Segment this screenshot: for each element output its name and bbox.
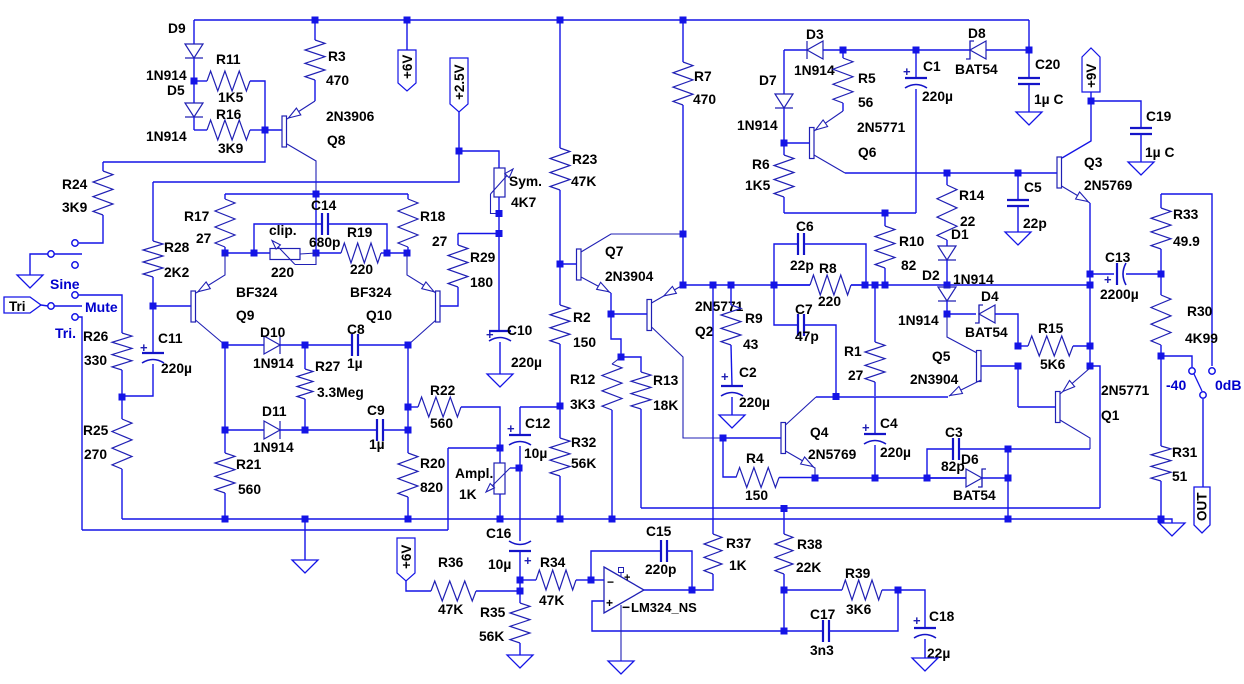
- svg-text:R5: R5: [858, 71, 876, 86]
- svg-text:10µ: 10µ: [524, 446, 547, 461]
- node D3/R5: [840, 47, 847, 54]
- svg-text:C14: C14: [311, 198, 337, 213]
- label R6 value 1K5: [745, 178, 771, 193]
- label R16: [216, 107, 242, 122]
- svg-text:R20: R20: [420, 456, 446, 471]
- label R13 value 18K: [653, 398, 678, 413]
- svg-text:C9: C9: [367, 403, 385, 418]
- node top bus / R7: [680, 17, 687, 24]
- label R38: [797, 537, 823, 552]
- capacitor C2: [721, 369, 743, 415]
- diode D6 BAT54: [927, 469, 1008, 487]
- svg-text:BF324: BF324: [350, 285, 392, 300]
- svg-text:3K9: 3K9: [62, 200, 88, 215]
- label R7: [694, 69, 712, 84]
- svg-text:22p: 22p: [1023, 216, 1047, 231]
- svg-text:2N5769: 2N5769: [1084, 178, 1133, 193]
- transistor Q2: [611, 285, 723, 438]
- diode D3: [807, 41, 843, 59]
- label C1 value 220µ: [922, 89, 953, 104]
- wire Q9 column: [224, 345, 226, 453]
- svg-text:C6: C6: [796, 219, 814, 234]
- label R8 value 220: [818, 294, 841, 309]
- label Q7: [605, 244, 624, 259]
- diode D5: [185, 81, 203, 130]
- svg-text:1K: 1K: [729, 558, 747, 573]
- label R17 value 27: [196, 231, 212, 246]
- node R6 row / R10: [882, 210, 889, 217]
- switch contact 0dB: [1209, 368, 1215, 374]
- svg-text:1N914: 1N914: [253, 440, 294, 455]
- capacitor C5: [1007, 173, 1029, 232]
- capacitor C6: [774, 233, 866, 285]
- svg-text:Q6: Q6: [858, 145, 877, 160]
- node C16/R34: [517, 577, 524, 584]
- wire R6 bottom row: [784, 212, 916, 214]
- svg-text:C18: C18: [929, 609, 955, 624]
- svg-text:D8: D8: [968, 26, 986, 41]
- label R9: [745, 311, 763, 326]
- transistor Q7: [560, 234, 683, 314]
- node rail R21: [222, 516, 229, 523]
- capacitor C17: [784, 590, 898, 642]
- svg-text:3n3: 3n3: [810, 643, 834, 658]
- resistor R39: [784, 580, 898, 600]
- label R4: [746, 451, 764, 466]
- wire R33 top to 0dB: [1161, 194, 1212, 366]
- label R6: [752, 157, 770, 172]
- resistor R34: [520, 570, 591, 590]
- svg-text:1µ C: 1µ C: [1145, 145, 1174, 160]
- label R32 value 56K: [571, 456, 596, 471]
- label D7 value 1N914: [737, 118, 778, 133]
- wire C12 top to R2 node: [520, 406, 560, 408]
- label C6 value 22p: [790, 258, 814, 273]
- svg-text:1N914: 1N914: [794, 63, 835, 78]
- svg-text:47K: 47K: [571, 174, 596, 189]
- label R20 value 820: [420, 480, 443, 495]
- label R39 value 3K6: [846, 602, 872, 617]
- wiper Ampl to C12: [510, 467, 520, 469]
- svg-text:C12: C12: [525, 416, 551, 431]
- svg-text:10µ: 10µ: [488, 557, 511, 572]
- node C1 top: [913, 47, 920, 54]
- wire Q4 collector row: [816, 396, 948, 398]
- node Q5 base: [1015, 363, 1022, 370]
- label C10: [507, 323, 533, 338]
- switch pole ground: [30, 251, 82, 275]
- svg-text:R17: R17: [184, 209, 210, 224]
- label R16 value 3K9: [218, 141, 244, 156]
- resistor R26: [112, 333, 132, 397]
- node R34/C15/opamp: [588, 577, 595, 584]
- resistor R15: [1018, 336, 1090, 356]
- node R10 bottom: [882, 282, 889, 289]
- svg-text:Sine: Sine: [50, 276, 80, 292]
- svg-text:3.3Meg: 3.3Meg: [317, 385, 364, 400]
- node Q2 emitter: [680, 282, 687, 289]
- node emitter row mid: [313, 250, 320, 257]
- label R23: [572, 152, 598, 167]
- resistor R4: [723, 438, 815, 488]
- label Q4: [810, 425, 829, 440]
- svg-text:R30: R30: [1187, 304, 1213, 319]
- power flag +6V top: [398, 20, 416, 91]
- label D4 value BAT54: [965, 325, 1008, 340]
- node R22 tap: [405, 404, 412, 411]
- label R34: [540, 555, 566, 570]
- label R19: [347, 225, 373, 240]
- capacitor C19: [1091, 101, 1152, 162]
- wire emitter row right: [815, 477, 966, 479]
- label R28: [164, 240, 190, 255]
- svg-text:R6: R6: [752, 157, 770, 172]
- label Sym.: [509, 174, 542, 189]
- node C4 bottom: [872, 475, 879, 482]
- svg-text:680p: 680p: [309, 235, 340, 250]
- label R26 value 330: [84, 353, 107, 368]
- svg-text:R11: R11: [216, 52, 241, 67]
- wire gnd mid drop: [304, 519, 306, 560]
- svg-text:R23: R23: [572, 152, 598, 167]
- node R18 bottom / Q10 emitter: [404, 250, 411, 257]
- label R20: [420, 456, 446, 471]
- svg-text:R24: R24: [62, 177, 88, 192]
- svg-text:D11: D11: [262, 404, 287, 419]
- svg-text:R12: R12: [570, 372, 596, 387]
- svg-text:+: +: [862, 420, 870, 435]
- resistor R37: [692, 534, 722, 590]
- svg-text:C7: C7: [795, 302, 813, 317]
- svg-text:56K: 56K: [479, 629, 504, 644]
- label R36: [438, 555, 464, 570]
- resistor R14: [937, 173, 957, 246]
- svg-text:2N3904: 2N3904: [605, 269, 654, 284]
- svg-text:BAT54: BAT54: [955, 62, 998, 77]
- switch arm out: [1194, 374, 1206, 398]
- node Q10 collector row: [405, 342, 412, 349]
- node Sym/R29 row: [496, 230, 503, 237]
- svg-text:+: +: [721, 369, 729, 384]
- svg-text:R38: R38: [797, 537, 823, 552]
- node rail Ampl: [497, 516, 504, 523]
- svg-text:LM324_NS: LM324_NS: [631, 600, 697, 615]
- node D1/D2 on feedback line: [944, 282, 951, 289]
- svg-text:C8: C8: [347, 322, 365, 337]
- node Q9 base: [150, 303, 157, 310]
- svg-text:270: 270: [84, 447, 107, 462]
- node R1 top: [872, 282, 879, 289]
- wire R13 bottom row: [641, 507, 1100, 509]
- node R38 top: [781, 505, 788, 512]
- trimmer Ampl. 1K: [486, 448, 510, 519]
- svg-text:-40: -40: [1166, 377, 1186, 393]
- label Ampl.: [455, 466, 493, 481]
- svg-text:2N5769: 2N5769: [808, 447, 857, 462]
- ground C18: [912, 658, 938, 671]
- label D1: [951, 227, 969, 242]
- wire to OUT port: [1202, 399, 1204, 487]
- resistor R13: [621, 357, 651, 508]
- node R15 left: [1015, 343, 1022, 350]
- svg-text:R16: R16: [216, 107, 242, 122]
- label R2 value 150: [573, 335, 596, 350]
- svg-text:R15: R15: [1038, 321, 1064, 336]
- svg-text:43: 43: [743, 337, 759, 352]
- label D7: [759, 73, 777, 88]
- label C9: [367, 403, 385, 418]
- wire to -40 contact: [1161, 356, 1192, 367]
- svg-text:−: −: [622, 600, 630, 615]
- svg-text:1N914: 1N914: [146, 68, 187, 83]
- label R29: [470, 250, 496, 265]
- svg-text:BAT54: BAT54: [965, 325, 1008, 340]
- label C3 value 82p: [941, 459, 965, 474]
- svg-text:+: +: [913, 613, 921, 628]
- svg-text:2N3906: 2N3906: [326, 109, 375, 124]
- node C3/Q1 collector: [1005, 446, 1012, 453]
- node R17 bottom / Q9 emitter: [222, 250, 229, 257]
- transistor Q6: [784, 111, 845, 173]
- label C4 value 220µ: [880, 445, 911, 460]
- node D9/D5/R11: [191, 78, 198, 85]
- svg-text:2N5771: 2N5771: [1101, 383, 1150, 398]
- label R29 value 180: [470, 275, 493, 290]
- label R13: [653, 373, 679, 388]
- svg-text:+: +: [624, 572, 630, 584]
- svg-text:+6V: +6V: [400, 55, 415, 79]
- label R10: [899, 234, 925, 249]
- ground R35: [507, 655, 533, 668]
- label D11: [262, 404, 287, 419]
- switch throw Sine: [72, 292, 122, 333]
- label Q6: [858, 145, 877, 160]
- ground op-amp: [608, 661, 634, 674]
- node R12/R13 top: [618, 354, 625, 361]
- power flag +2.5V: [450, 58, 468, 151]
- label D3 value 1N914: [794, 63, 835, 78]
- label Q3: [1084, 155, 1103, 170]
- svg-text:C15: C15: [646, 524, 672, 539]
- svg-text:1N914: 1N914: [253, 356, 294, 371]
- svg-text:R32: R32: [571, 435, 597, 450]
- svg-text:56: 56: [858, 95, 874, 110]
- label C5: [1024, 180, 1042, 195]
- svg-text:R29: R29: [470, 250, 496, 265]
- label C9 value 1µ: [369, 437, 385, 452]
- node C6/C7 left: [771, 282, 778, 289]
- svg-text:47p: 47p: [795, 329, 819, 344]
- label 0dB: [1215, 377, 1241, 393]
- wire rail y530: [82, 529, 448, 531]
- label Q3 type 2N5769: [1084, 178, 1133, 193]
- label C16 value 10µ: [488, 557, 511, 572]
- svg-text:180: 180: [470, 275, 493, 290]
- label R24 value 3K9: [62, 200, 88, 215]
- svg-text:R8: R8: [819, 261, 837, 276]
- svg-text:82: 82: [901, 258, 917, 273]
- svg-text:Sym.: Sym.: [509, 174, 542, 189]
- svg-text:OUT: OUT: [1195, 492, 1210, 521]
- diode D8 BAT54: [916, 41, 1029, 59]
- ground C10: [487, 374, 513, 387]
- node +2.5V: [456, 148, 463, 155]
- node Q7 base: [557, 261, 564, 268]
- svg-text:220µ: 220µ: [511, 355, 542, 370]
- node R39/C17 right: [895, 587, 902, 594]
- svg-text:1N914: 1N914: [898, 313, 939, 328]
- resistor R6: [774, 143, 794, 213]
- wire Q8 base to R24: [103, 130, 265, 162]
- label R18 value 27: [432, 234, 448, 249]
- trimmer clip. 220: [270, 241, 316, 265]
- svg-text:D7: D7: [759, 73, 777, 88]
- wire R17/R18 top row: [225, 193, 408, 195]
- transistor Q8: [265, 101, 316, 194]
- label D10: [260, 325, 286, 340]
- node Q2 base tap: [608, 311, 615, 318]
- resistor R2: [550, 264, 570, 406]
- wire emitter row a: [225, 252, 270, 254]
- svg-text:D5: D5: [167, 83, 185, 98]
- label C14: [311, 198, 337, 213]
- svg-text:D6: D6: [961, 452, 979, 467]
- node Q7 collector row: [680, 231, 687, 238]
- capacitor C7: [774, 285, 836, 396]
- node C9/R20: [405, 427, 412, 434]
- svg-text:220µ: 220µ: [880, 445, 911, 460]
- port OUT: [1194, 487, 1210, 533]
- wire rail to ground right: [1161, 519, 1172, 523]
- label Sine: [50, 276, 80, 292]
- svg-text:5K6: 5K6: [1040, 357, 1066, 372]
- wire Q10 column: [407, 345, 409, 453]
- svg-text:Ampl.: Ampl.: [455, 466, 493, 481]
- label R3: [328, 49, 346, 64]
- resistor R8: [774, 275, 865, 295]
- capacitor C16: [509, 541, 532, 591]
- svg-text:51: 51: [1172, 469, 1188, 484]
- label R25: [83, 423, 109, 438]
- transistor Q5: [947, 314, 1018, 396]
- resistor R36: [431, 581, 520, 601]
- wire R29 top row: [458, 233, 499, 235]
- svg-text:0dB: 0dB: [1215, 377, 1241, 393]
- label D8 value BAT54: [955, 62, 998, 77]
- resistor R1: [865, 285, 885, 396]
- label R30 value 4K99: [1185, 331, 1218, 346]
- capacitor C10: [486, 327, 511, 374]
- label Sym value 4K7: [511, 195, 537, 210]
- svg-text:R18: R18: [420, 209, 446, 224]
- svg-text:C16: C16: [486, 526, 512, 541]
- label D8: [968, 26, 986, 41]
- switch throw to R24: [72, 240, 78, 246]
- capacitor C12: [507, 407, 531, 541]
- node D11 left: [222, 427, 229, 434]
- label C7 value 47p: [795, 329, 819, 344]
- switch throw Tri.: [72, 314, 82, 530]
- label C19 value 1µ C: [1145, 145, 1174, 160]
- label C13: [1105, 250, 1131, 265]
- label R5: [858, 71, 876, 86]
- node C16/R36/R35: [517, 588, 524, 595]
- label C19: [1146, 109, 1172, 124]
- wire to +input rail: [448, 448, 500, 530]
- svg-text:+: +: [606, 596, 613, 610]
- label R21: [236, 457, 262, 472]
- svg-text:150: 150: [745, 488, 768, 503]
- label Q10 type BF324: [350, 285, 392, 300]
- svg-text:R28: R28: [164, 240, 190, 255]
- resistor R29: [440, 234, 468, 307]
- resistor R33: [1151, 194, 1171, 274]
- label C1: [923, 59, 941, 74]
- wire top supply bus: [194, 19, 1029, 21]
- svg-text:220: 220: [818, 294, 841, 309]
- node C7/Q4col: [833, 393, 840, 400]
- switch contact -40: [1189, 368, 1195, 374]
- node R19/C14 right: [384, 250, 391, 257]
- svg-text:820: 820: [420, 480, 443, 495]
- svg-text:D4: D4: [981, 289, 999, 304]
- label R12: [570, 372, 596, 387]
- label D5: [167, 83, 185, 98]
- svg-text:220µ: 220µ: [922, 89, 953, 104]
- svg-text:2N3904: 2N3904: [910, 372, 959, 387]
- node R15 right: [1087, 343, 1094, 350]
- node R2/C12/R32: [557, 403, 564, 410]
- svg-text:R35: R35: [480, 605, 506, 620]
- label C12 value 10µ: [524, 446, 547, 461]
- capacitor C20: [1018, 50, 1040, 112]
- capacitor C15: [661, 540, 692, 590]
- wire Q6 collector row: [845, 172, 1057, 174]
- svg-text:Q4: Q4: [810, 425, 829, 440]
- label Q8 type 2N3906: [326, 109, 375, 124]
- node rail gnd mid: [302, 516, 309, 523]
- svg-text:R22: R22: [430, 383, 456, 398]
- label Tri.: [55, 325, 76, 341]
- svg-text:C4: C4: [880, 416, 898, 431]
- svg-text:49.9: 49.9: [1173, 234, 1200, 249]
- power flag +9V: [1082, 48, 1100, 101]
- label R28 value 2K2: [164, 265, 190, 280]
- node +9V: [1088, 98, 1095, 105]
- label R27 value 3.3Meg: [317, 385, 364, 400]
- svg-text:4K7: 4K7: [511, 195, 537, 210]
- svg-text:D3: D3: [806, 27, 824, 42]
- label R21 value 560: [238, 482, 261, 497]
- svg-text:4K99: 4K99: [1185, 331, 1218, 346]
- wire ground rail: [122, 518, 1161, 520]
- label C20: [1035, 57, 1061, 72]
- label R11: [216, 52, 241, 67]
- node rail R32: [557, 516, 564, 523]
- svg-text:3K9: 3K9: [218, 141, 244, 156]
- node R11/R16/Q8 base: [262, 127, 269, 134]
- label Q5: [932, 349, 951, 364]
- label R35: [480, 605, 506, 620]
- resistor R30: [1151, 274, 1171, 356]
- node top bus / R23: [557, 17, 564, 24]
- label R25 value 270: [84, 447, 107, 462]
- wire Sym to C10: [498, 233, 500, 330]
- label Q6 type 2N5771: [857, 120, 906, 135]
- label D2 value 1N914: [898, 313, 939, 328]
- svg-text:2K2: 2K2: [164, 265, 190, 280]
- resistor R23: [550, 20, 570, 264]
